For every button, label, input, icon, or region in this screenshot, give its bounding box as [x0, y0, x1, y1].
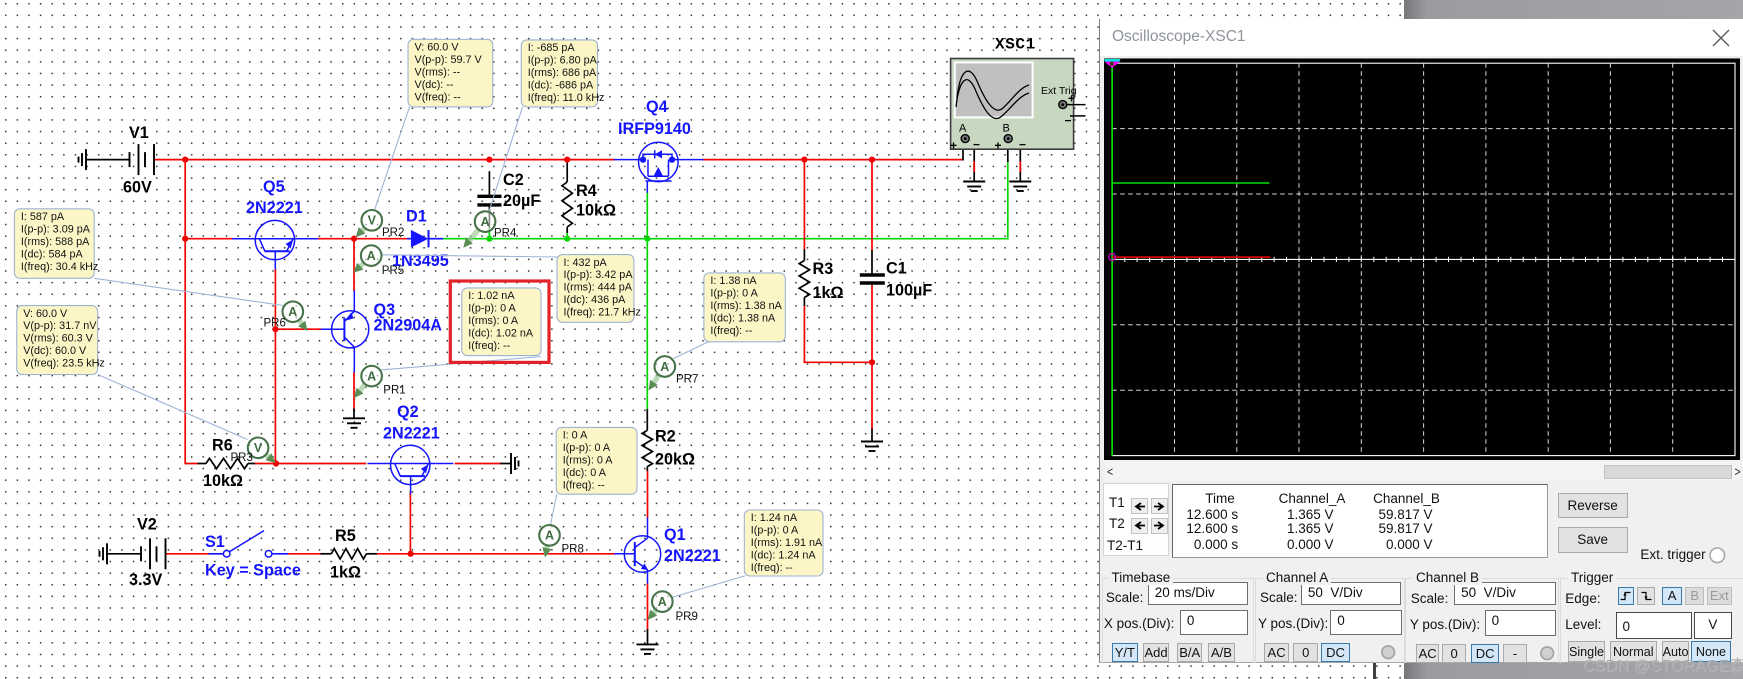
wire: rail to Q5 collector (red) — [185, 238, 232, 240]
transistor Q1 2N2221 — [614, 518, 720, 584]
svg-text:V(dc): --: V(dc): -- — [415, 79, 454, 91]
wire: V2 ground to battery (black) — [107, 553, 140, 555]
wire: red vertical from top rail down left side to R6 row — [185, 160, 197, 464]
svg-text:A: A — [367, 249, 376, 263]
svg-text:I(freq): 21.7 kHz: I(freq): 21.7 kHz — [564, 307, 641, 319]
capacitor C1 100uF — [860, 250, 933, 299]
probe PR2 (V) — [356, 210, 405, 239]
svg-text:D1: D1 — [406, 208, 427, 226]
probe PR9 (A) — [648, 591, 698, 623]
readout table Time / Channel_A / Channel_B — [1172, 484, 1549, 558]
ground below C1 — [861, 442, 883, 452]
svg-text:PR3: PR3 — [231, 452, 253, 464]
junction dots (green net) — [486, 236, 650, 242]
svg-text:I(p-p): 0 A: I(p-p): 0 A — [710, 288, 758, 300]
channel A trace (green) — [1111, 63, 1113, 455]
svg-text:Key = Space: Key = Space — [205, 562, 301, 580]
svg-text:IRFP9140: IRFP9140 — [618, 120, 691, 138]
svg-text:I(rms): 0 A: I(rms): 0 A — [563, 455, 614, 467]
measurement tooltip PR3 values — [17, 306, 105, 375]
svg-text:V: V — [368, 214, 377, 228]
svg-text:A: A — [660, 360, 669, 374]
wire: R6 to Q2 row (red) — [255, 463, 366, 465]
resistor R5 1k — [321, 527, 378, 582]
svg-text:PR8: PR8 — [562, 544, 584, 556]
wire: scope A- lead to ground (black with red segment) — [973, 146, 975, 182]
svg-text:2N2221: 2N2221 — [246, 199, 303, 217]
svg-text:I(rms): 1.91 nA: I(rms): 1.91 nA — [751, 537, 823, 549]
svg-text:I(freq): --: I(freq): -- — [468, 340, 510, 352]
svg-text:PR5: PR5 — [382, 265, 404, 277]
switch S1 (Key = Space) — [205, 531, 301, 580]
Save button — [1558, 527, 1628, 553]
svg-text:V1: V1 — [129, 124, 149, 142]
probe PR3 (V) — [231, 438, 276, 465]
svg-text:C2: C2 — [503, 171, 524, 189]
svg-text:I: -685 pA: I: -685 pA — [528, 42, 576, 54]
wire: Q2 emitter to sideways ground (red then black) — [456, 463, 502, 465]
svg-text:60V: 60V — [123, 179, 152, 197]
svg-text:I(rms): 686 pA: I(rms): 686 pA — [528, 67, 597, 79]
svg-text:10kΩ: 10kΩ — [576, 202, 616, 220]
measurement tooltip PR7 values — [704, 273, 785, 342]
ground below Q1 (PR9 node) — [637, 644, 659, 654]
wire: PR6 node to Q3 base (red) — [275, 328, 320, 330]
wire: R2 bottom to Q1 collector (red) — [647, 471, 649, 518]
svg-text:I: 1.38 nA: I: 1.38 nA — [710, 275, 757, 287]
svg-text:I(freq): 11.0 kHz: I(freq): 11.0 kHz — [528, 92, 605, 104]
svg-text:PR7: PR7 — [676, 374, 698, 386]
wire: Q5 base down to PR6 node (red) — [274, 270, 276, 330]
svg-text:I: 1.24 nA: I: 1.24 nA — [751, 512, 798, 524]
svg-text:V(freq): --: V(freq): -- — [415, 91, 462, 103]
svg-text:A: A — [658, 595, 667, 609]
wire: PR2 node to D1 anode (red) — [354, 238, 407, 240]
svg-text:I(dc): 1.02 nA: I(dc): 1.02 nA — [468, 327, 534, 339]
transistor Q3 2N2904A — [321, 290, 443, 372]
svg-text:I(dc): 584 pA: I(dc): 584 pA — [21, 248, 84, 260]
svg-text:−: − — [973, 138, 980, 152]
svg-text:I(dc): 1.24 nA: I(dc): 1.24 nA — [751, 550, 817, 562]
probe PR7 (A) — [649, 356, 699, 390]
junction dots (red nets) — [182, 157, 875, 557]
svg-text:V(p-p): 31.7 nV: V(p-p): 31.7 nV — [23, 320, 97, 332]
probe PR4 (A) — [463, 211, 517, 248]
svg-text:V2: V2 — [137, 516, 157, 534]
svg-text:I(p-p): 3.09 pA: I(p-p): 3.09 pA — [21, 223, 91, 235]
svg-text:A: A — [367, 369, 376, 383]
svg-text:XSC1: XSC1 — [995, 36, 1036, 54]
oscilloscope icon XSC1 — [950, 36, 1086, 153]
svg-text:A: A — [545, 529, 554, 543]
measurement tooltip PR2 values — [408, 39, 493, 107]
svg-text:I(freq): --: I(freq): -- — [563, 479, 605, 491]
measurement tooltip PR5 values — [557, 255, 641, 323]
svg-text:I(freq): 30.4 kHz: I(freq): 30.4 kHz — [21, 261, 98, 273]
probe PR8 (A) — [539, 525, 584, 558]
svg-text:I(rms): 444 pA: I(rms): 444 pA — [564, 282, 633, 294]
wire: R3 branch from top rail (red) — [803, 160, 805, 250]
ground at V2 (sideways) — [100, 543, 108, 564]
svg-text:I: 432 pA: I: 432 pA — [564, 257, 608, 269]
svg-text:PR1: PR1 — [383, 385, 405, 397]
wire: green net from D1 cathode to scope B input — [443, 161, 1008, 239]
ground at V1 (sideways) — [79, 149, 87, 170]
wire: Q5 emitter to PR2 node (red) — [318, 238, 354, 240]
wire: S1 to R5 (red) — [288, 553, 320, 555]
capacitor C2 20uF — [477, 171, 540, 239]
ground at scope B- lead — [1009, 182, 1031, 192]
Reverse button — [1558, 493, 1628, 518]
svg-text:V(dc): 60.0 V: V(dc): 60.0 V — [23, 345, 87, 357]
svg-text:I(freq): --: I(freq): -- — [710, 325, 752, 337]
resistor R4 10k — [562, 160, 616, 239]
wire: Q2 base down to R5 row (red) — [409, 492, 411, 554]
Trigger group — [1560, 578, 1743, 663]
svg-text:R5: R5 — [335, 527, 356, 545]
ground at Q3 collector (PR1 node) — [343, 418, 365, 428]
tooltip leader lines — [94, 107, 745, 598]
svg-text:PR6: PR6 — [264, 318, 286, 330]
svg-text:3.3V: 3.3V — [129, 571, 163, 589]
wire: green net down to R2 (green) — [646, 239, 648, 409]
svg-text:A: A — [959, 123, 967, 135]
resistor R3 1k — [799, 249, 843, 306]
measurement tooltip PR4 values — [521, 40, 604, 107]
svg-text:I(p-p): 0 A: I(p-p): 0 A — [468, 303, 516, 315]
svg-text:A: A — [481, 215, 490, 229]
svg-text:I(rms): 0 A: I(rms): 0 A — [468, 315, 519, 327]
svg-text:A: A — [288, 305, 297, 319]
svg-text:I(p-p): 6.80 pA: I(p-p): 6.80 pA — [528, 55, 598, 67]
svg-text:I(dc): -686 pA: I(dc): -686 pA — [528, 80, 594, 92]
svg-text:Q4: Q4 — [646, 98, 668, 116]
wire: scope B+ lead (black) — [1007, 143, 1009, 162]
svg-text:R4: R4 — [576, 182, 597, 200]
scope display graticule and traces — [1104, 58, 1740, 460]
svg-text:20kΩ: 20kΩ — [655, 451, 695, 469]
svg-text:+: + — [995, 139, 1002, 153]
selected tooltip PR1 values with red highlight box — [450, 281, 549, 362]
svg-text:Q1: Q1 — [664, 526, 686, 544]
wire: V1 ground to battery (black) — [86, 159, 128, 161]
window edge artifact bottom — [1373, 663, 1376, 679]
svg-text:V(rms): --: V(rms): -- — [415, 66, 461, 78]
wire: Q4 gate down to green net (green) — [646, 193, 648, 239]
svg-text:I: 1.02 nA: I: 1.02 nA — [468, 290, 515, 302]
svg-text:R2: R2 — [655, 428, 676, 446]
resistor R6 10k — [198, 437, 255, 491]
transistor Q4 IRFP9140 (PMOS) — [614, 98, 704, 193]
svg-text:PR9: PR9 — [676, 611, 698, 623]
svg-text:Q5: Q5 — [263, 178, 285, 196]
Ext. trigger radio — [1640, 547, 1705, 562]
svg-text:V(rms): 60.3 V: V(rms): 60.3 V — [23, 333, 93, 345]
battery V1 — [123, 124, 154, 197]
ground at scope A- lead — [963, 182, 985, 192]
svg-text:V: 60.0 V: V: 60.0 V — [415, 42, 460, 54]
svg-text:R3: R3 — [813, 260, 834, 278]
wire: C1 bottom through node to ground (red then black) — [871, 285, 873, 430]
svg-text:V: V — [254, 441, 263, 455]
ground right of Q2 (sideways) — [511, 453, 519, 474]
svg-text:I(rms): 1.38 nA: I(rms): 1.38 nA — [710, 300, 782, 312]
svg-text:100µF: 100µF — [886, 282, 932, 300]
svg-text:I: 587 pA: I: 587 pA — [21, 211, 65, 223]
svg-text:I(dc): 0 A: I(dc): 0 A — [563, 467, 607, 479]
svg-text:1kΩ: 1kΩ — [813, 284, 844, 302]
svg-text:2N2221: 2N2221 — [383, 425, 440, 443]
watermark — [1583, 652, 1743, 676]
scope horizontal scrollbar — [1104, 460, 1740, 481]
svg-text:+: + — [950, 139, 957, 153]
channel B trace (red) — [1112, 256, 1270, 258]
svg-text:Q2: Q2 — [397, 403, 419, 421]
svg-text:2N2221: 2N2221 — [664, 547, 721, 565]
svg-text:10kΩ: 10kΩ — [203, 472, 243, 490]
probe PR6 (A) — [264, 301, 308, 331]
probe PR5 (A) — [354, 245, 405, 277]
close button X — [1711, 28, 1731, 48]
wire: R5 to Q1 base (red) — [377, 553, 614, 555]
svg-text:2N2904A: 2N2904A — [374, 317, 443, 335]
svg-text:I(p-p): 0 A: I(p-p): 0 A — [751, 525, 799, 537]
transistor Q2 2N2221 — [368, 403, 454, 494]
resistor R2 20k — [642, 409, 695, 471]
svg-text:V(freq): 23.5 kHz: V(freq): 23.5 kHz — [23, 358, 105, 370]
svg-text:V: 60.0 V: V: 60.0 V — [23, 308, 68, 320]
svg-text:20µF: 20µF — [503, 192, 540, 210]
wire: Q1 emitter down to ground (red then black) — [647, 584, 649, 630]
measurement tooltip PR9 values — [744, 510, 823, 576]
battery V2 3.3V — [129, 516, 166, 590]
wire: V2 to S1 (red) — [166, 553, 209, 555]
measurement tooltip PR8 values — [556, 427, 637, 494]
transistor Q5 2N2221 — [232, 178, 318, 270]
svg-text:I(rms): 588 pA: I(rms): 588 pA — [21, 236, 90, 248]
svg-text:+: + — [1068, 92, 1075, 106]
Channel B group — [1405, 578, 1559, 663]
svg-text:−: − — [1019, 138, 1026, 152]
svg-text:S1: S1 — [205, 533, 225, 551]
wire: scope B- lead to ground (black with red segment) — [1019, 146, 1021, 182]
wire: C1 branch from top rail (red) — [871, 160, 873, 251]
svg-text:B: B — [1003, 123, 1010, 135]
wire: R3 bottom corner to C1 node (red) — [804, 306, 872, 362]
svg-text:I(p-p): 3.42 pA: I(p-p): 3.42 pA — [564, 269, 634, 281]
wire: scope A+ lead (black) — [962, 143, 964, 160]
svg-text:I(dc): 1.38 nA: I(dc): 1.38 nA — [710, 312, 776, 324]
diode D1 1N3495 — [392, 208, 449, 271]
Timebase group — [1102, 578, 1254, 663]
wire: Q3 collector down to ground (red) — [353, 373, 355, 410]
cursor readout T1/T2 panel — [1103, 483, 1169, 556]
trigger position marker — [1104, 59, 1120, 62]
svg-text:PR2: PR2 — [382, 227, 404, 239]
probe PR1 (A) — [354, 366, 406, 398]
wire: PR6 node down to R6 row (red) — [274, 329, 276, 463]
svg-text:C1: C1 — [886, 260, 907, 278]
svg-text:I(freq): --: I(freq): -- — [751, 562, 793, 574]
svg-text:PR4: PR4 — [494, 228, 517, 240]
svg-text:I(dc): 436 pA: I(dc): 436 pA — [564, 294, 627, 306]
svg-text:V(p-p): 59.7 V: V(p-p): 59.7 V — [415, 54, 483, 66]
wire: PR2 node down to Q3 emitter (red) — [353, 239, 355, 291]
measurement tooltip PR6 values — [14, 209, 98, 278]
svg-text:1kΩ: 1kΩ — [330, 564, 361, 582]
oscilloscope window Oscilloscope-XSC1 — [1099, 19, 1743, 663]
svg-text:I(p-p): 0 A: I(p-p): 0 A — [563, 442, 611, 454]
wire: top +60V rail (red) from V1 to Q4 and scope A — [154, 159, 614, 161]
svg-text:I: 0 A: I: 0 A — [563, 430, 588, 442]
Channel A group — [1255, 578, 1405, 663]
